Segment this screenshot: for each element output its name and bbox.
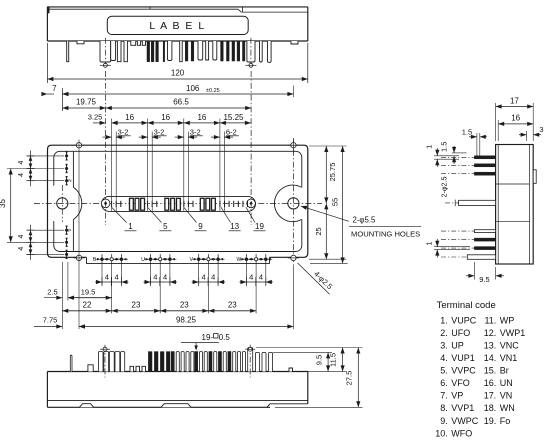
svg-text:0.5: 0.5	[219, 333, 231, 342]
svg-text:6.: 6.	[440, 378, 448, 388]
svg-text:19.: 19.	[484, 416, 497, 426]
svg-text:19.5: 19.5	[81, 288, 96, 297]
svg-text:4: 4	[249, 273, 253, 282]
svg-text:9.: 9.	[440, 416, 448, 426]
svg-text:W: W	[237, 257, 242, 263]
svg-text:UFO: UFO	[451, 328, 470, 338]
svg-text:B: B	[93, 257, 97, 263]
svg-text:66.5: 66.5	[173, 98, 189, 107]
svg-text:2.: 2.	[440, 328, 448, 338]
svg-text:25: 25	[314, 227, 323, 235]
svg-text:19-: 19-	[202, 333, 214, 342]
svg-text:VUPC: VUPC	[451, 315, 477, 325]
svg-text:9: 9	[198, 222, 203, 231]
svg-text:23: 23	[132, 301, 141, 310]
svg-text:27.5: 27.5	[345, 371, 354, 386]
svg-text:5: 5	[163, 222, 168, 231]
svg-text:±0.25: ±0.25	[206, 88, 220, 94]
svg-text:3-2: 3-2	[154, 128, 165, 137]
svg-text:9.5: 9.5	[314, 355, 323, 365]
svg-text:2-φ5.5: 2-φ5.5	[353, 216, 376, 225]
svg-text:4: 4	[163, 273, 167, 282]
svg-text:8.: 8.	[440, 403, 448, 413]
svg-text:15.: 15.	[484, 366, 497, 376]
svg-text:106: 106	[186, 84, 200, 93]
svg-text:3-2: 3-2	[118, 128, 129, 137]
svg-text:4: 4	[18, 160, 25, 164]
svg-text:4: 4	[115, 273, 119, 282]
svg-text:VUP1: VUP1	[451, 353, 475, 363]
svg-text:98.25: 98.25	[176, 316, 197, 325]
svg-text:V: V	[190, 257, 194, 263]
svg-text:4: 4	[18, 247, 25, 251]
svg-text:WN: WN	[500, 403, 515, 413]
svg-text:11.: 11.	[484, 315, 496, 325]
svg-text:13: 13	[230, 222, 239, 231]
svg-text:1: 1	[425, 145, 434, 149]
svg-text:17.: 17.	[484, 391, 497, 401]
svg-text:10.: 10.	[435, 428, 448, 438]
svg-text:VNC: VNC	[500, 340, 520, 350]
svg-text:4: 4	[153, 273, 157, 282]
svg-text:VWPC: VWPC	[451, 416, 479, 426]
svg-text:55: 55	[330, 198, 339, 206]
svg-text:VWP1: VWP1	[500, 328, 526, 338]
svg-text:17: 17	[510, 96, 519, 105]
svg-text:16: 16	[197, 113, 206, 122]
svg-text:4: 4	[202, 273, 206, 282]
svg-text:7.75: 7.75	[43, 316, 58, 325]
svg-text:3.: 3.	[440, 340, 448, 350]
svg-text:4: 4	[211, 273, 215, 282]
svg-text:WP: WP	[500, 315, 515, 325]
svg-text:4.: 4.	[440, 353, 448, 363]
svg-text:2-φ2.5: 2-φ2.5	[440, 176, 449, 197]
svg-text:VVP1: VVP1	[451, 403, 474, 413]
svg-text:VVPC: VVPC	[451, 366, 476, 376]
svg-text:Br: Br	[500, 366, 509, 376]
svg-text:U: U	[141, 257, 145, 263]
svg-text:9.5: 9.5	[479, 275, 489, 284]
svg-text:23: 23	[228, 301, 237, 310]
svg-text:1: 1	[425, 241, 434, 245]
svg-text:15.25: 15.25	[223, 113, 244, 122]
svg-text:UP: UP	[451, 340, 464, 350]
svg-text:13.: 13.	[484, 340, 497, 350]
svg-text:12.: 12.	[484, 328, 497, 338]
svg-text:120: 120	[171, 69, 185, 78]
svg-text:7: 7	[52, 84, 57, 93]
svg-text:MOUNTING HOLES: MOUNTING HOLES	[351, 230, 420, 239]
svg-text:16: 16	[511, 114, 520, 123]
svg-text:23: 23	[180, 301, 189, 310]
svg-text:16.: 16.	[484, 378, 497, 388]
svg-text:3-2: 3-2	[190, 128, 201, 137]
svg-text:22: 22	[83, 301, 92, 310]
svg-text:1.: 1.	[440, 315, 448, 325]
svg-text:25.75: 25.75	[328, 163, 337, 182]
svg-text:Fo: Fo	[500, 416, 511, 426]
svg-text:16: 16	[125, 113, 134, 122]
svg-text:14.: 14.	[484, 353, 497, 363]
svg-text:3: 3	[539, 125, 543, 134]
svg-text:Terminal code: Terminal code	[437, 300, 496, 311]
svg-text:16: 16	[161, 113, 170, 122]
svg-text:18.: 18.	[484, 403, 497, 413]
svg-text:19.75: 19.75	[76, 98, 97, 107]
svg-text:1.5: 1.5	[439, 142, 448, 152]
svg-text:VP: VP	[451, 391, 463, 401]
svg-text:P: P	[68, 228, 71, 233]
svg-text:11.5: 11.5	[329, 353, 338, 367]
svg-text:6-2: 6-2	[226, 128, 237, 137]
svg-text:4: 4	[18, 173, 25, 177]
svg-text:7.: 7.	[440, 391, 448, 401]
svg-text:VN: VN	[500, 391, 513, 401]
svg-text:N: N	[68, 178, 71, 183]
svg-text:WFO: WFO	[451, 428, 472, 438]
svg-text:L A B E L: L A B E L	[149, 20, 205, 32]
svg-text:1: 1	[128, 222, 133, 231]
svg-text:UN: UN	[500, 378, 513, 388]
svg-text:VN1: VN1	[500, 353, 518, 363]
svg-text:3.25: 3.25	[88, 113, 103, 122]
svg-text:1.5: 1.5	[462, 127, 472, 136]
svg-text:VFO: VFO	[451, 378, 470, 388]
svg-text:35: 35	[0, 199, 7, 208]
svg-text:5.: 5.	[440, 366, 448, 376]
svg-text:2.5: 2.5	[47, 288, 57, 297]
svg-text:4: 4	[105, 273, 109, 282]
svg-text:19: 19	[255, 222, 264, 231]
svg-text:4: 4	[18, 235, 25, 239]
svg-text:4: 4	[259, 273, 263, 282]
